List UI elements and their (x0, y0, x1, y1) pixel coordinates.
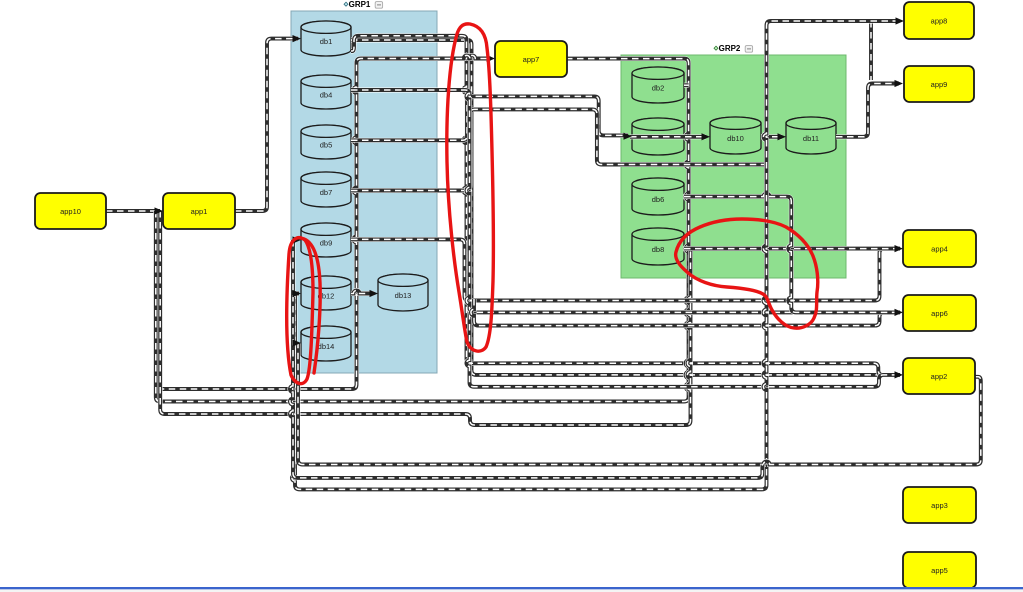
svg-text:app1: app1 (191, 207, 208, 216)
wire db2 stub (684, 83, 689, 88)
wire db10 to db11 (761, 134, 782, 139)
database cylinder db7 (301, 172, 351, 207)
svg-text:db13: db13 (395, 291, 412, 300)
database cylinder db6 (632, 178, 684, 215)
svg-text:db11: db11 (803, 134, 819, 143)
wire app1 to db1 (235, 39, 298, 211)
svg-text:app5: app5 (931, 566, 948, 575)
wire db8 to app4 (684, 246, 900, 251)
arrowhead at 495,58.5 (487, 55, 496, 62)
app node app4 (903, 230, 976, 267)
database cylinder db4 (301, 75, 351, 109)
database cylinder db8 (632, 228, 684, 265)
group GRP2 label (714, 44, 753, 53)
svg-text:app10: app10 (60, 207, 81, 216)
group GRP2 container (621, 55, 846, 278)
wire app9 riser (869, 21, 874, 80)
svg-text:app7: app7 (523, 55, 540, 64)
app node app3 (903, 487, 976, 523)
database cylinder db3 (632, 118, 684, 155)
arrowhead at 632,136.2 (624, 133, 633, 140)
app node app7 (495, 41, 567, 77)
arrowhead at 903,248.6 (895, 245, 904, 252)
app node app2 (903, 358, 975, 394)
app node app1 (163, 193, 235, 229)
wire into db4 line (351, 90, 900, 387)
svg-text:db5: db5 (320, 141, 333, 150)
svg-text:app6: app6 (931, 309, 948, 318)
wire db9 to app4 join (351, 239, 900, 300)
wire db6 to app6 (684, 194, 900, 313)
wire db11 to app9 (836, 84, 899, 137)
arrowhead at 301,240 (293, 236, 302, 243)
svg-text:db9: db9 (320, 239, 333, 248)
database cylinder db12 (301, 276, 351, 310)
wire app7 to left loop (156, 59, 689, 402)
svg-text:GRP2: GRP2 (719, 44, 741, 53)
svg-text:app8: app8 (931, 17, 948, 26)
red freehand loop around right-of-GRP1 wire bundle (447, 24, 494, 351)
svg-text:app9: app9 (931, 80, 948, 89)
arrowhead at 301,38.6 (293, 35, 302, 42)
bottom blue border line (0, 587, 1023, 589)
wire left bundle to app7 (158, 55, 491, 389)
svg-text:app2: app2 (931, 372, 948, 381)
database cylinder db10 (710, 117, 761, 154)
arrowhead at 378,293.5 (370, 290, 379, 297)
app node app5 (903, 552, 976, 588)
red freehand loop around db9/db12/db14 arrows (287, 238, 313, 384)
wire app8 line and big loop to db12 (292, 21, 899, 489)
arrowhead at 301,343 (293, 339, 302, 346)
svg-text:db14: db14 (318, 342, 335, 351)
svg-text:db2: db2 (652, 84, 665, 93)
wire channel to app6 (466, 255, 900, 312)
wire left bundle jog line (160, 211, 690, 425)
arrowhead at 786,136.8 (778, 133, 787, 140)
app node app10 (35, 193, 106, 229)
wire db5 to db3 (351, 96, 628, 140)
wire db3 to db10 (630, 134, 706, 139)
database cylinder db14 (301, 326, 351, 361)
wire db12 arrow stub (295, 294, 299, 298)
arrowhead at 163,211 (155, 207, 164, 214)
wire db1 lower to app2 join (351, 36, 900, 375)
database cylinder db9 (301, 223, 351, 257)
arrowhead at 903,374.9 (895, 371, 904, 378)
arrowhead at 903,83.5 (895, 80, 904, 87)
red freehand blob around db8 / GRP2 lower wires (676, 219, 818, 328)
wire db7 under GRP2 (351, 109, 766, 190)
database cylinder db13 (378, 274, 428, 311)
arrowhead at 903,312.4 (895, 309, 904, 316)
wire db12 to db13 (351, 290, 374, 293)
wire db1 to app2 (351, 40, 900, 375)
wire app2 loop to db14 (298, 343, 981, 465)
svg-text:db7: db7 (320, 188, 333, 197)
svg-text:GRP1: GRP1 (349, 0, 371, 9)
arrowhead at 904,21 (896, 17, 905, 24)
database cylinder db5 (301, 125, 351, 159)
svg-text:app4: app4 (931, 245, 948, 254)
database cylinder db11 (786, 117, 836, 154)
database cylinder db1 (301, 21, 351, 56)
group GRP1 container (291, 11, 437, 373)
arrowhead at 710,136.8 (702, 133, 711, 140)
app node app8 (904, 2, 974, 39)
arrowhead at 301,293.5 (293, 290, 302, 297)
svg-text:db10: db10 (727, 134, 744, 143)
database cylinder db2 (632, 67, 684, 103)
wire 477 line to db9 arrow (290, 240, 763, 478)
svg-text:db8: db8 (652, 245, 665, 254)
app node app9 (904, 66, 974, 102)
group GRP1 label (344, 0, 383, 9)
app node app6 (903, 295, 976, 331)
svg-text:db1: db1 (320, 37, 333, 46)
wire app10 to app1 (106, 209, 160, 214)
svg-text:app3: app3 (931, 501, 948, 510)
svg-text:db6: db6 (652, 195, 665, 204)
wire channel to app6 join (471, 299, 900, 326)
svg-text:db4: db4 (320, 91, 333, 100)
